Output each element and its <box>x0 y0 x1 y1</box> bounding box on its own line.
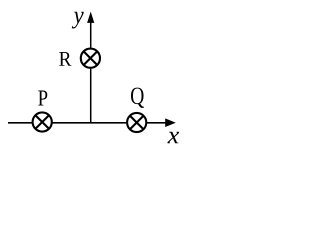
node P symbol (circled cross) <box>33 112 52 131</box>
x-axis arrowhead <box>165 118 176 127</box>
y axis label <box>72 12 84 29</box>
node P label <box>38 90 47 105</box>
node Q label <box>131 88 144 108</box>
y-axis wire <box>90 22 92 123</box>
x axis label <box>167 132 179 143</box>
node Q symbol (circled cross) <box>127 113 146 132</box>
node R label <box>59 52 71 66</box>
x-axis wire <box>8 122 167 124</box>
node R symbol (circled cross) <box>81 49 100 68</box>
y-axis arrowhead <box>87 12 94 23</box>
